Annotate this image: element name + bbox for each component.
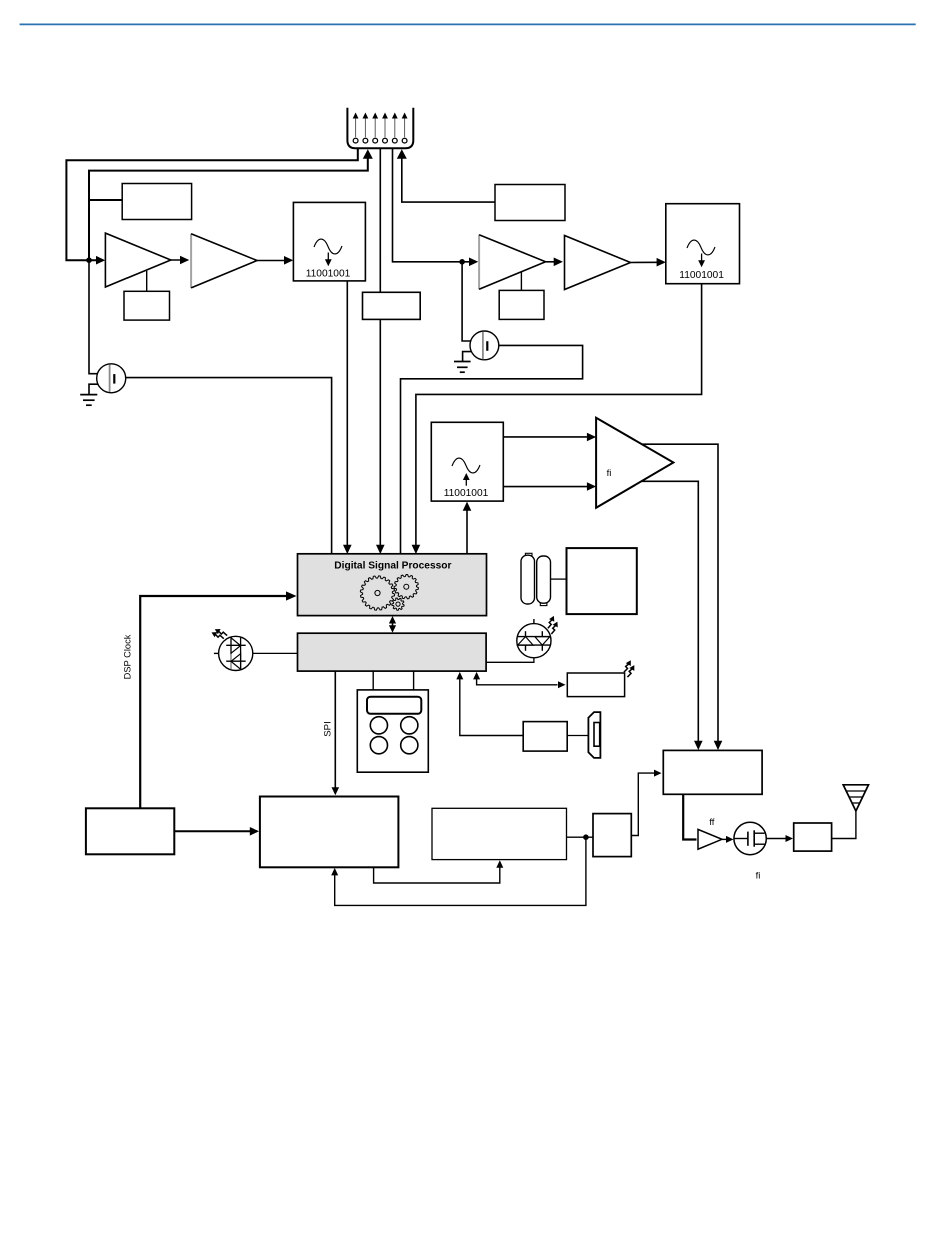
svg-text:fi: fi xyxy=(756,871,761,882)
svg-text:DSP Clock: DSP Clock xyxy=(123,634,133,679)
svg-text:11001001: 11001001 xyxy=(679,270,724,281)
svg-text:Digital Signal Processor: Digital Signal Processor xyxy=(334,560,451,571)
svg-text:11001001: 11001001 xyxy=(306,269,351,280)
svg-text:SPI: SPI xyxy=(323,721,334,736)
svg-text:11001001: 11001001 xyxy=(444,488,489,499)
svg-text:fi: fi xyxy=(607,468,612,479)
svg-text:ff: ff xyxy=(709,817,714,828)
